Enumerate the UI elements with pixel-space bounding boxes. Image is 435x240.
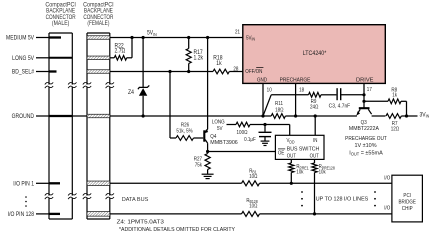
J2 socket GROUND (87, 114, 110, 118)
svg-text:10Ω: 10Ω (249, 203, 257, 209)
U1 pin 28 label (233, 66, 238, 72)
svg-text:Z4: 1PMT5.0AT3: Z4: 1PMT5.0AT3 (117, 219, 164, 225)
ellipsis dots mid (301, 191, 303, 206)
J2 socket I/O 128 (87, 212, 110, 217)
svg-text:OE: OE (278, 150, 284, 156)
svg-text:OUT: OUT (287, 153, 296, 159)
junction R22 top (130, 36, 133, 39)
svg-text:I/O: I/O (384, 175, 390, 181)
junction IN (314, 114, 317, 117)
svg-text:12Ω: 12Ω (391, 126, 400, 132)
junction RPRE128 (313, 212, 316, 215)
svg-text:I/O PIN 1: I/O PIN 1 (13, 181, 34, 187)
svg-text:5V: 5V (217, 125, 223, 131)
junction R17 bottom (187, 70, 190, 73)
text UP TO 128 I/O LINES (316, 196, 369, 202)
wire ground between connectors (72, 115, 87, 117)
junction Q4 emitter rail (206, 36, 209, 39)
svg-text:MMBT3906: MMBT3906 (210, 139, 238, 145)
wire 5VIN rail (110, 37, 243, 39)
svg-text:I/O PIN 128: I/O PIN 128 (8, 212, 34, 218)
J1 pin MEDIUM 5V (49, 36, 61, 38)
U1 pin 10 GND stub (263, 83, 272, 116)
resistor R17 1.2k (186, 38, 203, 72)
wire BD_SEL# to OFF/ON (110, 71, 243, 73)
svg-text:Z4: Z4 (128, 89, 134, 95)
wire ground rail (110, 115, 357, 117)
svg-text:18: 18 (299, 87, 304, 93)
node GROUND label (12, 114, 49, 120)
resistor R8 1k (364, 87, 407, 116)
svg-text:LONG 5V: LONG 5V (12, 55, 34, 61)
node BD_SEL# label (12, 69, 49, 75)
svg-text:BUS SWITCH: BUS SWITCH (287, 146, 320, 152)
resistor R7 12ohm (386, 114, 407, 133)
J1 pin BD_SEL# (49, 70, 57, 72)
svg-text:18Ω: 18Ω (275, 107, 284, 113)
wire Q4 emitter to 5VIN (207, 38, 209, 130)
text DATA BUS (122, 197, 149, 203)
svg-text:10k: 10k (296, 169, 304, 175)
connector J2 CompactPCI female body (87, 33, 110, 219)
svg-text:1.2k: 1.2k (194, 55, 204, 61)
node 5VIN label (147, 30, 157, 37)
J2 socket LONG 5V (87, 56, 110, 60)
svg-text:VDD​: VDD​ (287, 138, 295, 145)
svg-text:PRECHARGE: PRECHARGE (280, 77, 311, 83)
resistor R26 51k (176, 122, 194, 140)
junction RPRE1 (290, 182, 293, 185)
wire data bus 1 (110, 182, 392, 184)
svg-text:10: 10 (267, 87, 272, 93)
svg-text:51k, 5%: 51k, 5% (176, 128, 193, 134)
junction precharge wire (294, 114, 297, 117)
IC U1 LTC4240 (243, 25, 385, 84)
IC U3 PCI bridge chip (392, 175, 423, 222)
IC U2 bus switch (275, 135, 324, 159)
resistor 100ohm (227, 122, 290, 136)
svg-text:5VIN​: 5VIN​ (147, 30, 157, 37)
junction cap tap (263, 123, 266, 126)
transistor Q3 MMBT2222A (349, 108, 380, 132)
junction Q4 collector (206, 150, 209, 153)
junction drive R8 (362, 100, 365, 103)
svg-text:5VIN​: 5VIN​ (246, 35, 255, 42)
wire GND riser to R9 (263, 95, 309, 116)
svg-text:1k: 1k (392, 92, 397, 98)
node I/O PIN 128 label (8, 212, 49, 218)
U1 pin name PRECHARGE (280, 77, 311, 83)
junction Z4 top (142, 36, 145, 39)
svg-text:1V ±10%: 1V ±10% (354, 143, 376, 149)
svg-text:DATA BUS: DATA BUS (122, 197, 149, 203)
node LONG 5V tap label (212, 119, 225, 132)
svg-text:10k: 10k (319, 169, 327, 175)
svg-text:3VIN​: 3VIN​ (420, 112, 430, 119)
resistor R9 24ohm (309, 92, 337, 110)
U1 pin 17 DRIVE stub (364, 83, 372, 108)
svg-text:OUT: OUT (310, 153, 319, 159)
J2 socket I/O 1 (87, 181, 110, 186)
svg-text:IOUT​ = ±55mA: IOUT​ = ±55mA (349, 150, 383, 157)
J1 pin I/O 1 (49, 182, 60, 184)
svg-text:*ADDITIONAL DETAILS OMITTED FO: *ADDITIONAL DETAILS OMITTED FOR CLARITY (119, 227, 236, 233)
svg-text:MMBT2222A: MMBT2222A (349, 125, 380, 131)
resistor R18 1k (213, 55, 229, 74)
svg-text:PRECHARGE OUT: PRECHARGE OUT (345, 136, 387, 142)
transistor Q4 MMBT3906 (194, 129, 239, 146)
svg-text:75k: 75k (195, 162, 203, 168)
J2 break lower (83, 193, 114, 199)
wire data bus 2 (110, 213, 392, 215)
U1 pin name 5VIN (246, 35, 255, 42)
resistor RB128 10ohm (242, 198, 260, 217)
ground cap (261, 141, 270, 145)
svg-text:2.7Ω: 2.7Ω (115, 48, 126, 54)
wire VDD feed (289, 125, 291, 136)
wire Q3 collector (372, 115, 386, 117)
resistor R11 18ohm (271, 101, 285, 119)
J2 socket MEDIUM 5V (87, 36, 110, 40)
resistor RB1 10ohm (242, 168, 260, 186)
svg-text:1k: 1k (216, 60, 222, 66)
wire BD_SEL to R26 (170, 72, 176, 139)
resistor R22 2.7ohm (110, 38, 132, 61)
junction GND pin (261, 114, 264, 117)
svg-text:C3, 4.7nF: C3, 4.7nF (329, 103, 351, 109)
svg-text:IN: IN (313, 138, 318, 144)
svg-text:28: 28 (233, 66, 238, 72)
text additional details footnote (119, 227, 236, 233)
text Z4 footnote (117, 219, 164, 225)
svg-text:GROUND: GROUND (12, 114, 34, 120)
J1 break lower (45, 193, 77, 199)
U3 pin I/O bottom (384, 205, 390, 211)
svg-text:DRIVE: DRIVE (356, 77, 374, 83)
ground R27 (202, 174, 214, 178)
U3 pin I/O top (384, 175, 390, 181)
svg-text:CHIP: CHIP (402, 205, 413, 211)
wire Q4 collector (207, 143, 209, 151)
svg-text:(FEMALE): (FEMALE) (87, 21, 109, 27)
J1 pin LONG 5V (49, 57, 72, 59)
svg-text:100Ω: 100Ω (237, 129, 248, 135)
junction 3VIN (405, 114, 408, 117)
junction drive C3 (362, 93, 365, 96)
svg-text:GND: GND (257, 77, 267, 83)
svg-text:UP TO 128 I/O LINES: UP TO 128 I/O LINES (316, 196, 369, 202)
junction Z4 anode (142, 114, 145, 117)
svg-text:21: 21 (235, 29, 240, 35)
wire OE (208, 151, 276, 153)
junction R26 tap (168, 70, 171, 73)
svg-text:MEDIUM 5V: MEDIUM 5V (6, 35, 34, 41)
ellipsis dots right (374, 191, 376, 206)
wire IN feed (314, 116, 316, 135)
node 3VIN label (407, 112, 430, 119)
capacitor 0.1uF (244, 125, 271, 144)
node I/O PIN 1 label (13, 181, 49, 187)
U1 pin 18 PRECHARGE stub (296, 83, 305, 116)
U1 pin name OFF/ON (245, 67, 263, 75)
resistor R27 75k (194, 152, 211, 174)
U1 pin name GND (257, 77, 267, 83)
connector J2 CompactPCI female title (83, 2, 114, 27)
J2 socket BD_SEL# (87, 70, 110, 74)
U1 pin name DRIVE (356, 77, 374, 83)
J1 break upper (45, 82, 77, 88)
U1 pin 21 label (235, 29, 240, 35)
connector J1 CompactPCI male body (49, 33, 72, 219)
svg-text:I/O: I/O (384, 205, 390, 211)
zener Z4 (128, 38, 149, 117)
svg-text:10Ω: 10Ω (249, 173, 257, 179)
text PRECHARGE OUT spec (345, 136, 387, 157)
connector J1 CompactPCI male title (45, 2, 76, 27)
svg-text:17: 17 (367, 87, 372, 93)
resistor RPRE128 10k (312, 159, 335, 214)
J1 pin I/O 128 (49, 213, 60, 215)
ellipsis dots left (25, 196, 27, 207)
svg-text:(MALE): (MALE) (52, 21, 70, 27)
capacitor C3 4.7nF (329, 88, 364, 109)
svg-text:24Ω: 24Ω (310, 104, 319, 110)
svg-text:OFF/ON: OFF/ON (245, 69, 262, 75)
resistor RPRE1 10k (289, 159, 309, 183)
svg-text:BD_SEL#: BD_SEL# (12, 69, 35, 75)
J1 pin GROUND (49, 115, 72, 117)
node MEDIUM 5V label (6, 35, 49, 41)
J2 break upper (83, 82, 114, 88)
svg-text:0.1μF: 0.1μF (244, 137, 256, 143)
node LONG 5V label (12, 55, 49, 61)
svg-text:LTC4240*: LTC4240* (303, 51, 327, 57)
junction R17 top (187, 36, 190, 39)
